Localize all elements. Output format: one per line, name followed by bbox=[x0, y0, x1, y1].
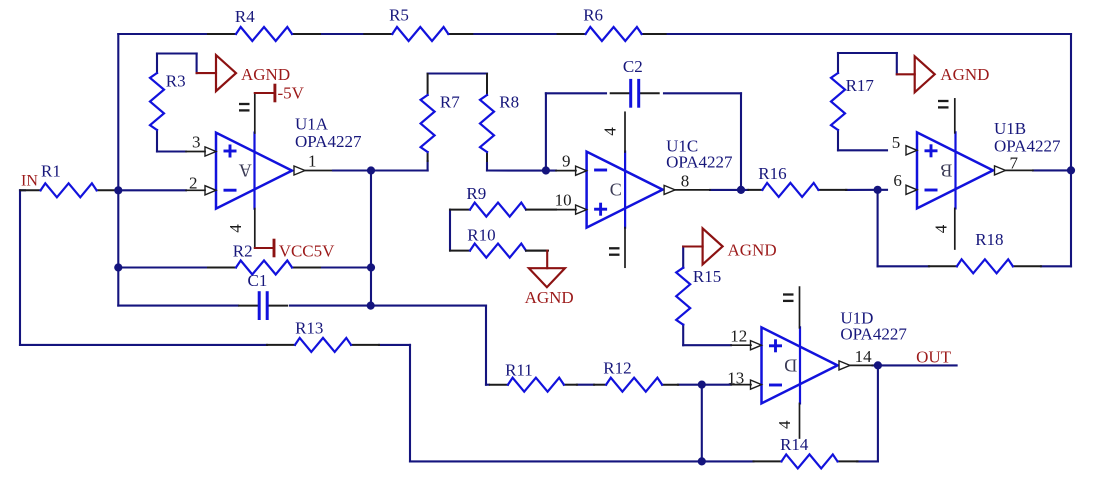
node U1A output junction bbox=[367, 166, 375, 174]
svg-text:R4: R4 bbox=[235, 7, 255, 26]
power port AGND near R15 bbox=[683, 228, 776, 264]
svg-text:AGND: AGND bbox=[241, 65, 290, 84]
svg-text:OUT: OUT bbox=[916, 348, 952, 367]
wire U1A out to R7 bbox=[371, 161, 428, 171]
svg-text:AGND: AGND bbox=[728, 241, 777, 260]
resistor R2 bbox=[208, 242, 320, 275]
svg-text:8: 8 bbox=[681, 171, 690, 190]
wire top feedback bus y=34 bbox=[118, 33, 1071, 35]
svg-text:4: 4 bbox=[775, 420, 794, 429]
resistor R6 bbox=[558, 6, 666, 41]
svg-text:R11: R11 bbox=[505, 360, 533, 379]
wire pin7 to right rail bbox=[1033, 169, 1071, 171]
op-amp U1D bbox=[727, 287, 907, 438]
capacitor C1 bbox=[239, 271, 287, 320]
svg-text:R10: R10 bbox=[467, 225, 495, 244]
svg-text:R13: R13 bbox=[295, 319, 323, 338]
op-amp U1A bbox=[186, 93, 371, 248]
wire R18 to right rail bbox=[1041, 265, 1071, 267]
resistor R5 bbox=[364, 6, 472, 41]
wire OUT net bbox=[873, 364, 957, 366]
svg-text:4: 4 bbox=[601, 127, 620, 136]
node C1 right junction bbox=[367, 302, 375, 310]
resistor R8 bbox=[480, 74, 519, 161]
op-amp U1C bbox=[526, 112, 733, 267]
wire right rail x=1071 bbox=[1070, 34, 1072, 266]
svg-text:9: 9 bbox=[562, 152, 571, 171]
resistor R3 bbox=[150, 71, 186, 130]
power port -5V bbox=[255, 84, 305, 103]
wire pin8 to R16 bbox=[710, 189, 748, 191]
net label IN bbox=[21, 173, 38, 190]
resistor R14 bbox=[754, 435, 858, 468]
svg-text:OPA4227: OPA4227 bbox=[666, 153, 733, 172]
wire C1 row to R11 bbox=[486, 306, 489, 385]
svg-text:A: A bbox=[239, 161, 252, 181]
wire R3 top jog bbox=[157, 54, 197, 74]
svg-text:OPA4227: OPA4227 bbox=[295, 132, 362, 151]
capacitor C2 bbox=[611, 57, 659, 108]
svg-text:OPA4227: OPA4227 bbox=[994, 137, 1061, 156]
wire R15 top bbox=[682, 247, 684, 268]
node pin14/OUT junction bbox=[874, 361, 882, 369]
svg-text:R17: R17 bbox=[846, 76, 875, 95]
svg-text:U1A: U1A bbox=[295, 115, 329, 134]
wire U1A output node vertical bbox=[370, 171, 372, 306]
svg-text:7: 7 bbox=[1010, 153, 1019, 172]
power port AGND near R17 bbox=[897, 56, 990, 92]
resistor R15 bbox=[676, 267, 721, 325]
wire R1 to pin2 node bbox=[117, 189, 186, 191]
svg-text:R6: R6 bbox=[583, 6, 603, 25]
node R2 left junction bbox=[114, 263, 122, 271]
power port VCC5V bbox=[255, 239, 335, 261]
wire IN to R1 and left loop bbox=[20, 190, 267, 345]
resistor R4 bbox=[208, 7, 320, 41]
svg-text:4: 4 bbox=[226, 224, 245, 233]
svg-text:C1: C1 bbox=[248, 271, 268, 290]
svg-text:13: 13 bbox=[727, 368, 744, 387]
resistor R16 bbox=[748, 164, 846, 197]
wire R2 row bbox=[118, 266, 371, 268]
node pin6 junction bbox=[874, 186, 882, 194]
wire R17 bottom to pin5 bbox=[838, 130, 887, 150]
resistor R17 bbox=[831, 73, 874, 130]
svg-text:VCC5V: VCC5V bbox=[279, 242, 335, 261]
svg-text:R5: R5 bbox=[389, 6, 409, 25]
wire left rail x=118 bbox=[117, 34, 119, 306]
wire R12 to pin13 node bbox=[678, 384, 731, 386]
svg-text:R2: R2 bbox=[233, 242, 253, 261]
svg-text:-5V: -5V bbox=[278, 84, 305, 103]
wire between R11 R12 bbox=[577, 384, 594, 386]
node bottom-row junction bbox=[698, 457, 706, 465]
resistor R9 bbox=[450, 184, 556, 217]
wire R7 R8 top bridge bbox=[428, 72, 487, 74]
node pin7 right-rail junction bbox=[1067, 166, 1075, 174]
wire C2 right branch bbox=[664, 93, 741, 190]
svg-text:R9: R9 bbox=[466, 184, 486, 203]
svg-text:U1B: U1B bbox=[994, 119, 1026, 138]
wire R16 to pin6 node bbox=[846, 189, 887, 191]
svg-text:D: D bbox=[784, 355, 797, 375]
svg-text:4: 4 bbox=[932, 224, 951, 233]
node pin8/C2/R16 junction bbox=[737, 186, 745, 194]
wire C2 left branch bbox=[546, 93, 606, 170]
svg-text:3: 3 bbox=[192, 133, 201, 152]
op-amp U1B bbox=[892, 99, 1061, 249]
svg-text:B: B bbox=[940, 160, 952, 180]
node R1/pin2 junction bbox=[114, 186, 122, 194]
wire pin6 node down to R18 bbox=[878, 190, 929, 266]
svg-text:IN: IN bbox=[21, 173, 38, 190]
svg-text:14: 14 bbox=[855, 347, 873, 366]
svg-text:5: 5 bbox=[892, 133, 901, 152]
svg-text:R1: R1 bbox=[41, 162, 61, 181]
power port AGND near R3 bbox=[197, 55, 291, 91]
resistor R1 bbox=[21, 162, 117, 198]
svg-text:R18: R18 bbox=[975, 230, 1003, 249]
svg-text:AGND: AGND bbox=[940, 65, 989, 84]
wire R17 top jog bbox=[838, 53, 897, 74]
svg-text:R12: R12 bbox=[603, 359, 631, 378]
svg-text:C2: C2 bbox=[623, 57, 643, 76]
svg-text:6: 6 bbox=[893, 171, 902, 190]
svg-text:AGND: AGND bbox=[525, 288, 574, 307]
svg-text:1: 1 bbox=[308, 152, 317, 171]
resistor R12 bbox=[594, 359, 678, 392]
svg-text:R14: R14 bbox=[780, 435, 809, 454]
wire R8 to pin9 node bbox=[487, 163, 556, 171]
resistor R18 bbox=[929, 230, 1041, 273]
svg-text:R8: R8 bbox=[499, 92, 519, 111]
svg-text:2: 2 bbox=[189, 174, 198, 193]
power port AGND below R10 bbox=[525, 251, 574, 307]
wire R15 bottom to pin12 bbox=[683, 325, 731, 346]
svg-text:C: C bbox=[610, 180, 622, 200]
svg-text:R15: R15 bbox=[693, 267, 721, 286]
node pin9 junction bbox=[542, 166, 550, 174]
svg-text:R3: R3 bbox=[166, 71, 186, 90]
wire C1 row bbox=[118, 305, 486, 307]
resistor R7 bbox=[421, 74, 461, 161]
svg-text:OPA4227: OPA4227 bbox=[840, 324, 907, 343]
wire R3 bottom to pin3 bbox=[157, 130, 186, 152]
node R2 right junction bbox=[367, 263, 375, 271]
wire R9 R10 left hairpin bbox=[449, 210, 451, 251]
resistor R13 bbox=[267, 319, 379, 352]
svg-text:10: 10 bbox=[555, 191, 572, 210]
resistor R11 bbox=[490, 360, 577, 391]
net label OUT bbox=[916, 348, 952, 367]
resistor R10 bbox=[450, 225, 548, 257]
svg-text:R7: R7 bbox=[440, 92, 460, 111]
svg-text:R16: R16 bbox=[758, 164, 786, 183]
node pin13 junction bbox=[698, 381, 706, 389]
wire pin13 node down bbox=[701, 385, 703, 462]
svg-text:12: 12 bbox=[730, 327, 747, 346]
wire bottom row bbox=[379, 345, 878, 462]
